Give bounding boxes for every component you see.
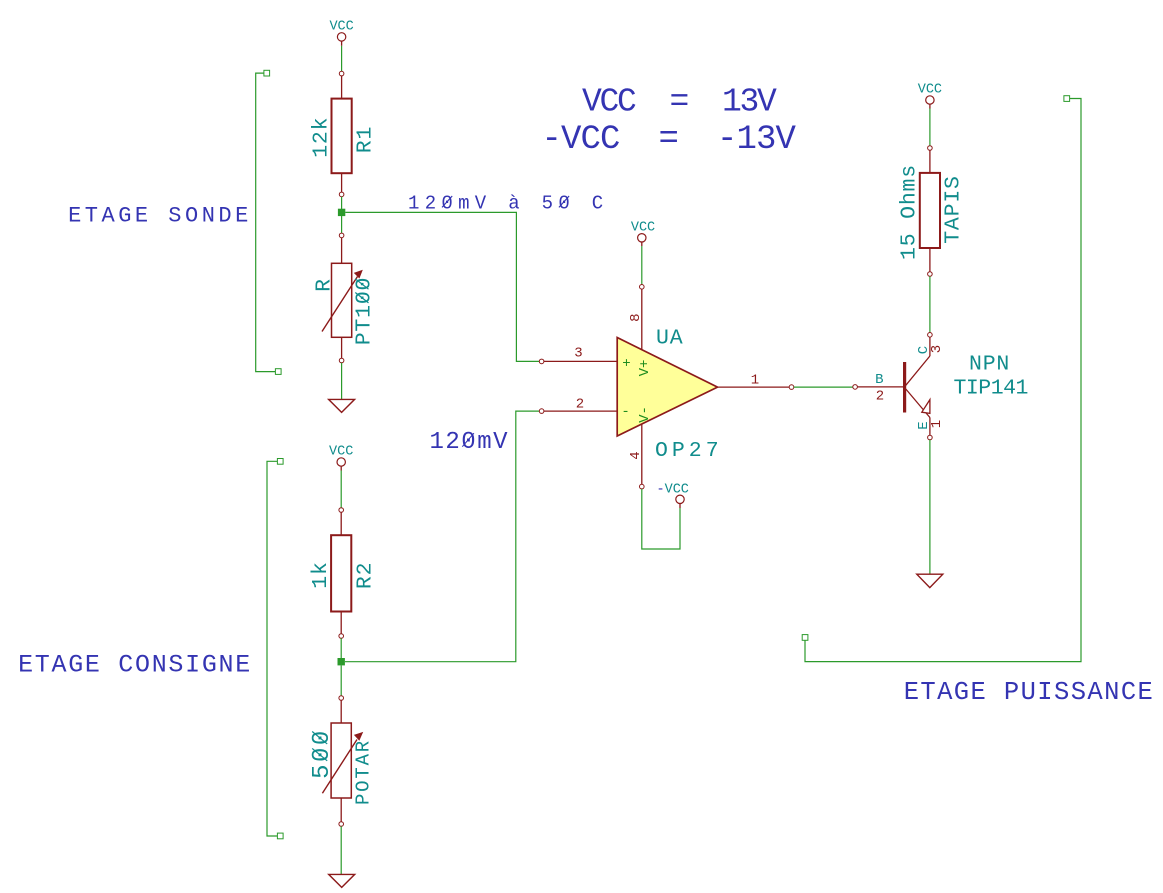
wire junction to POTAR: [340, 665, 342, 695]
svg-text:120mV à 50 C: 120mV à 50 C: [408, 193, 608, 215]
svg-text:PT100: PT100: [353, 277, 377, 346]
label 120mV à 50 C: [408, 193, 608, 215]
wire bracket etage consigne: [267, 459, 283, 839]
svg-text:NPN: NPN: [969, 353, 1010, 377]
reference R1: [354, 126, 378, 153]
svg-text:15 Ohms: 15 Ohms: [898, 164, 922, 260]
thermistor R PT100: [322, 233, 363, 363]
svg-text:-: -: [621, 404, 629, 420]
value 15 Ohms: [898, 164, 922, 260]
svg-text:POTAR: POTAR: [353, 739, 375, 805]
svg-text:3: 3: [574, 346, 582, 362]
power symbol VCC (puissance): [918, 83, 942, 109]
svg-text:12k: 12k: [309, 117, 333, 158]
power symbol VCC (top of R1): [329, 20, 353, 46]
value 500: [309, 728, 336, 779]
svg-text:VCC = 13V: VCC = 13V: [582, 84, 777, 121]
junction node (consigne): [338, 658, 345, 665]
svg-text:1k: 1k: [309, 561, 333, 588]
wire TAPIS to collector: [929, 276, 931, 332]
resistor R1 12k: [332, 71, 352, 196]
reference R (PT100): [313, 278, 337, 292]
svg-text:120mV: 120mV: [430, 429, 510, 456]
svg-text:1: 1: [929, 420, 945, 428]
svg-text:R2: R2: [353, 562, 377, 589]
svg-text:UA: UA: [656, 327, 683, 351]
resistor TAPIS 15 Ohms: [920, 146, 940, 277]
label 120mV: [430, 429, 510, 456]
svg-text:3: 3: [929, 345, 945, 353]
pin name V+: [637, 360, 653, 377]
svg-text:R: R: [313, 278, 337, 292]
wire VCC to op-amp pin 8: [641, 246, 643, 285]
svg-text:V+: V+: [637, 360, 653, 377]
power symbol VCC (op-amp): [631, 220, 655, 246]
svg-text:8: 8: [628, 313, 644, 321]
svg-text:-VCC: -VCC: [657, 482, 689, 497]
svg-text:500: 500: [309, 728, 336, 779]
op-amp UA OP27: [539, 285, 794, 489]
wire emitter to ground: [929, 440, 931, 574]
wire junction to op-amp pin 3: [345, 212, 539, 361]
wire R2 to junction: [340, 638, 342, 658]
svg-text:2: 2: [876, 388, 884, 404]
svg-text:VCC: VCC: [631, 220, 655, 235]
svg-text:-VCC = -13V: -VCC = -13V: [542, 121, 797, 159]
wire POTAR to ground: [340, 826, 342, 874]
svg-text:TIP141: TIP141: [954, 377, 1028, 401]
power symbol VCC (consigne): [329, 445, 353, 471]
pin number 4: [628, 451, 644, 459]
value 12k: [309, 117, 333, 158]
wire bracket etage sonde: [256, 70, 281, 374]
reference TAPIS: [941, 175, 965, 244]
pin name V-: [637, 406, 653, 423]
value PT100: [353, 277, 377, 346]
wire VCC to R1: [341, 46, 343, 72]
svg-text:ETAGE PUISSANCE: ETAGE PUISSANCE: [904, 678, 1155, 707]
svg-text:1: 1: [751, 373, 759, 389]
wire bracket etage puissance: [802, 96, 1081, 662]
wire R1 to junction: [341, 197, 343, 209]
pin number 8: [628, 313, 644, 321]
reference POTAR: [353, 739, 375, 805]
svg-text:OP27: OP27: [655, 439, 723, 463]
pin name C: [916, 346, 932, 354]
wire junction to PT100: [341, 216, 343, 233]
power symbol -VCC: [657, 482, 689, 508]
svg-text:TAPIS: TAPIS: [941, 175, 965, 244]
junction node (sonde): [338, 209, 345, 216]
wire PT100 to ground: [341, 363, 343, 400]
svg-text:4: 4: [628, 451, 644, 459]
wire op-amp pin 1 to transistor base: [794, 386, 853, 388]
pin name E: [916, 421, 932, 429]
ground (consigne): [329, 874, 355, 887]
pin number 1 (emitter): [929, 420, 945, 428]
svg-text:B: B: [875, 372, 883, 388]
svg-text:+: +: [622, 356, 630, 372]
wire junction consigne to op-amp pin 2: [345, 411, 539, 662]
ground (puissance): [917, 574, 943, 587]
transistor Q NPN TIP141: [853, 333, 932, 440]
value 1k: [309, 561, 333, 588]
svg-text:2: 2: [576, 397, 584, 413]
pin number 3 (collector): [929, 345, 945, 353]
wire VCC to TAPIS: [929, 109, 931, 146]
resistor R2 1k: [331, 508, 351, 639]
ground (sonde): [329, 399, 355, 412]
svg-text:R1: R1: [354, 126, 378, 153]
wire VCC to R2: [340, 471, 342, 508]
wire -VCC to op-amp pin 4: [642, 489, 680, 549]
reference R2: [353, 562, 377, 589]
svg-text:ETAGE SONDE: ETAGE SONDE: [68, 204, 252, 229]
potentiometer POTAR 500: [322, 696, 363, 827]
svg-text:ETAGE CONSIGNE: ETAGE CONSIGNE: [18, 651, 252, 680]
svg-text:V-: V-: [637, 406, 653, 423]
